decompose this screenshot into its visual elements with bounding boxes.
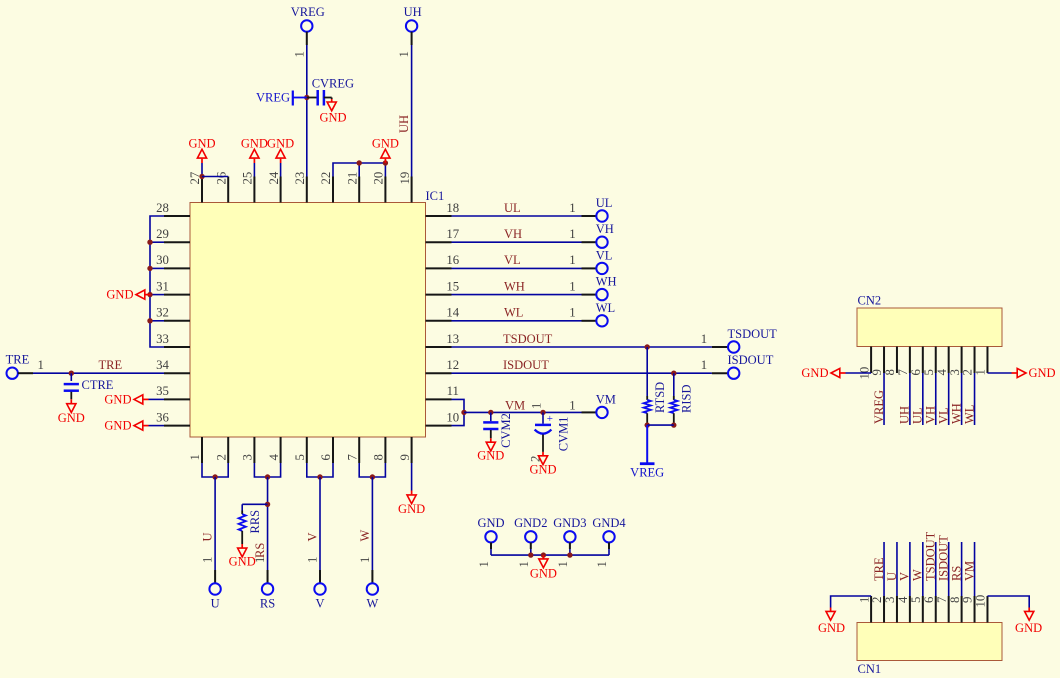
port GND3 <box>553 516 586 568</box>
ground pin 31 <box>106 288 150 302</box>
svg-text:GND: GND <box>229 554 256 568</box>
svg-text:3: 3 <box>883 597 897 603</box>
svg-text:TSDOUT: TSDOUT <box>924 531 938 581</box>
svg-text:VL: VL <box>504 253 521 267</box>
pin 1 label VH <box>569 227 575 241</box>
svg-text:CTRE: CTRE <box>82 378 114 392</box>
wire CN2 UL <box>922 373 924 425</box>
wire CN2 WH <box>961 373 963 425</box>
net label UL <box>504 201 521 215</box>
pin 34 <box>156 358 190 373</box>
port GND2 <box>514 516 547 568</box>
ground pin 20 <box>372 136 399 163</box>
refdes CN1 <box>858 662 882 676</box>
junction GND3 <box>567 552 572 557</box>
svg-text:WH: WH <box>949 403 963 424</box>
pin 7 <box>345 437 359 463</box>
svg-text:TSDOUT: TSDOUT <box>728 327 778 341</box>
svg-text:19: 19 <box>398 172 412 185</box>
wire GND4 <box>608 549 610 555</box>
svg-text:1: 1 <box>306 557 320 563</box>
svg-text:9: 9 <box>961 597 975 603</box>
pin 1 CN2 <box>974 347 988 376</box>
port TSDOUT <box>728 327 778 353</box>
svg-text:15: 15 <box>446 279 459 293</box>
svg-text:1: 1 <box>857 597 871 603</box>
svg-text:GND4: GND4 <box>592 516 626 530</box>
wire CN1 U <box>896 542 898 596</box>
resistor RRS <box>239 510 262 544</box>
pin 26 <box>214 171 228 202</box>
junction CVM1 <box>540 410 545 415</box>
wire bus pins 28-33 <box>150 216 164 347</box>
pin 15 <box>426 279 460 294</box>
refdes CN2 <box>858 294 882 308</box>
wire ISDOUT <box>452 372 728 374</box>
svg-text:35: 35 <box>156 384 169 398</box>
net label VREG CN2 <box>872 390 886 424</box>
wire CN1 TRE <box>883 542 885 596</box>
net label VL CN2 <box>936 407 950 424</box>
svg-text:VREG: VREG <box>872 390 886 424</box>
pin 25 <box>241 172 255 203</box>
wire CN1 ISDOUT <box>948 542 950 596</box>
net label W <box>358 530 372 542</box>
wire pins 11-10 bracket <box>452 399 465 425</box>
pin 1 label VM <box>569 399 575 413</box>
junction RS node <box>265 474 270 479</box>
svg-text:U: U <box>201 532 215 541</box>
pin 28 <box>156 201 190 216</box>
svg-text:10: 10 <box>974 595 988 608</box>
svg-text:GND: GND <box>477 516 504 530</box>
ground pin 25 <box>241 136 268 176</box>
net label VM <box>505 399 525 413</box>
pin 1 CN1 <box>857 596 871 623</box>
svg-text:CN1: CN1 <box>858 662 882 676</box>
svg-text:GND: GND <box>1015 621 1042 635</box>
svg-text:RS: RS <box>253 543 267 558</box>
svg-text:CN2: CN2 <box>858 294 882 308</box>
svg-text:1: 1 <box>358 557 372 563</box>
svg-text:WL: WL <box>962 405 976 424</box>
svg-text:GND: GND <box>372 136 399 150</box>
port WL <box>596 301 615 327</box>
svg-text:GND: GND <box>267 136 294 150</box>
svg-text:28: 28 <box>156 201 169 215</box>
svg-text:V: V <box>315 597 324 611</box>
net label RS <box>253 543 267 558</box>
svg-text:RTSD: RTSD <box>653 382 667 413</box>
wire TSDOUT <box>452 346 728 348</box>
wire VM <box>464 411 596 413</box>
svg-text:GND: GND <box>477 449 504 463</box>
port ISDOUT <box>728 353 774 379</box>
junction RTSD bottom <box>645 422 650 427</box>
svg-text:VH: VH <box>596 222 614 236</box>
svg-text:RISD: RISD <box>680 385 694 413</box>
capacitor CVM2 <box>483 412 513 448</box>
pin 30 <box>156 253 190 268</box>
pin 23 <box>293 172 307 203</box>
junction RS/RRS <box>265 502 270 507</box>
pin 16 <box>426 253 460 268</box>
pin 35 <box>156 384 190 399</box>
pin 18 <box>426 201 460 216</box>
net label WH <box>504 279 525 293</box>
port UL <box>596 196 613 222</box>
pin 6 CN1 <box>922 596 936 623</box>
svg-text:WL: WL <box>504 306 523 320</box>
svg-text:33: 33 <box>156 332 169 346</box>
svg-text:CVM2: CVM2 <box>499 413 513 448</box>
pin 27 <box>188 171 202 202</box>
svg-text:GND: GND <box>241 136 268 150</box>
pin 1 label UL <box>569 201 575 215</box>
pin 24 <box>267 171 281 202</box>
svg-text:1: 1 <box>397 51 411 57</box>
net label WL CN2 <box>962 405 976 424</box>
svg-text:21: 21 <box>345 172 359 185</box>
svg-text:34: 34 <box>156 358 169 372</box>
svg-text:CVM1: CVM1 <box>557 417 571 452</box>
svg-text:VH: VH <box>924 406 938 424</box>
wire UL <box>452 215 597 217</box>
wire CN2 WL <box>974 373 976 425</box>
wire VL <box>452 267 597 269</box>
svg-text:29: 29 <box>156 227 169 241</box>
wire UH to pin 19 <box>411 45 413 177</box>
svg-text:RS: RS <box>949 566 963 581</box>
ground GND bus <box>530 555 557 580</box>
pin 33 <box>156 332 190 347</box>
svg-text:TRE: TRE <box>6 353 30 367</box>
pin 31 <box>156 279 190 294</box>
junction GND2 <box>528 552 533 557</box>
ground pin 9 <box>398 463 425 516</box>
svg-text:5: 5 <box>922 369 936 375</box>
pin 3 CN1 <box>883 596 897 623</box>
net label TSDOUT <box>503 332 553 346</box>
svg-text:IC1: IC1 <box>426 189 445 203</box>
svg-text:WH: WH <box>504 279 525 293</box>
wire pins 27-26 <box>202 176 228 178</box>
svg-text:VL: VL <box>596 248 613 262</box>
svg-text:24: 24 <box>267 171 281 184</box>
svg-text:GND: GND <box>58 411 85 425</box>
junction U node <box>212 474 217 479</box>
svg-text:GND: GND <box>398 502 425 516</box>
svg-text:TSDOUT: TSDOUT <box>503 332 553 346</box>
pin 36 <box>156 410 190 425</box>
wire RTSD-RISD <box>647 424 674 426</box>
wire CN1 pin10 gnd <box>987 596 1042 635</box>
connector CN2 <box>857 308 1002 347</box>
svg-text:3: 3 <box>948 369 962 375</box>
wire RS to RRS <box>242 504 267 510</box>
net label UH <box>397 115 411 133</box>
junction VM node <box>461 410 466 415</box>
junction CVM2 <box>488 410 493 415</box>
svg-text:V: V <box>898 572 912 581</box>
pin 4 CN1 <box>896 596 910 623</box>
svg-text:1: 1 <box>569 201 575 215</box>
svg-text:1: 1 <box>569 306 575 320</box>
svg-text:30: 30 <box>156 253 169 267</box>
net label WH CN2 <box>949 403 963 424</box>
capacitor CVREG <box>307 77 354 106</box>
pin 8 CN2 <box>883 347 897 376</box>
junction TRE/CTRE <box>69 371 74 376</box>
junction pin 30 <box>147 266 152 271</box>
wire CN2 VH <box>935 373 937 425</box>
svg-text:W: W <box>366 597 378 611</box>
power VREG left <box>256 90 307 105</box>
svg-text:5: 5 <box>293 454 307 460</box>
pin 21 <box>345 172 359 203</box>
svg-text:GND: GND <box>106 288 133 302</box>
net label W CN1 <box>911 569 925 581</box>
svg-text:ISDOUT: ISDOUT <box>936 535 950 581</box>
svg-text:20: 20 <box>372 172 386 185</box>
pin 2 CN2 <box>961 347 975 376</box>
svg-text:10: 10 <box>446 410 459 424</box>
svg-text:31: 31 <box>156 279 169 293</box>
port GND <box>477 516 504 568</box>
svg-text:2: 2 <box>961 369 975 375</box>
svg-text:4: 4 <box>896 596 910 603</box>
port RS <box>260 583 275 610</box>
junction TSDOUT/RTSD <box>645 344 650 349</box>
ground below CVREG <box>319 98 346 125</box>
net label VL <box>504 253 521 267</box>
svg-text:5: 5 <box>909 597 923 603</box>
wire CN2 pin10 gnd <box>801 366 871 380</box>
pin 9 CN2 <box>870 347 884 376</box>
junction pin 27 <box>199 174 204 179</box>
wire V <box>319 477 321 583</box>
wire CN1 pin1 gnd <box>818 596 871 635</box>
svg-text:16: 16 <box>446 253 459 267</box>
svg-text:23: 23 <box>293 172 307 185</box>
pin 1 label V <box>306 557 320 563</box>
connector CN1 <box>857 623 1002 661</box>
pin 4 <box>267 437 281 463</box>
net label TRE <box>99 358 123 372</box>
svg-text:1: 1 <box>974 369 988 375</box>
svg-text:3: 3 <box>241 454 255 460</box>
svg-text:V: V <box>306 532 320 541</box>
ground pin 36 <box>104 419 164 433</box>
pin 13 <box>426 332 460 347</box>
port VM <box>596 392 616 418</box>
svg-text:VL: VL <box>936 407 950 424</box>
svg-text:8: 8 <box>948 597 962 603</box>
net label VH CN2 <box>924 406 938 424</box>
svg-text:4: 4 <box>267 454 281 461</box>
svg-text:VREG: VREG <box>630 465 664 479</box>
svg-text:UL: UL <box>596 196 613 210</box>
pin 1 label W <box>358 557 372 563</box>
pin 10 CN1 <box>974 595 988 623</box>
svg-text:36: 36 <box>156 410 169 424</box>
svg-text:1: 1 <box>569 399 575 413</box>
svg-text:17: 17 <box>446 227 459 241</box>
svg-text:ISDOUT: ISDOUT <box>503 358 549 372</box>
pin 2 <box>214 437 228 463</box>
wire CN1 V <box>909 542 911 596</box>
wire W <box>371 477 373 583</box>
ground below CTRE <box>58 392 85 425</box>
svg-text:2: 2 <box>870 597 884 603</box>
pin 2 label CVM1 <box>529 456 543 462</box>
pin 1 label CVM1 <box>530 403 544 409</box>
svg-text:W: W <box>911 569 925 581</box>
pin 22 <box>319 172 333 203</box>
svg-text:GND: GND <box>818 621 845 635</box>
svg-text:9: 9 <box>398 454 412 460</box>
pin 10 <box>426 410 460 425</box>
svg-text:18: 18 <box>446 201 459 215</box>
wire pins 22-20 <box>333 163 385 177</box>
svg-text:6: 6 <box>909 369 923 376</box>
net label UL CN2 <box>911 407 925 424</box>
wire CN1 TSDOUT <box>935 542 937 596</box>
wire pins 5-6 bracket <box>307 463 333 477</box>
svg-text:RRS: RRS <box>248 510 262 534</box>
port VL <box>596 248 613 274</box>
wire GND2 <box>530 549 532 555</box>
resistor RTSD <box>644 347 667 425</box>
junction pin 32 <box>147 318 152 323</box>
ground pin 35 <box>104 392 164 406</box>
ground pin 27 <box>188 136 215 176</box>
port VH <box>596 222 614 248</box>
junction pin 20 <box>383 160 388 165</box>
svg-text:1: 1 <box>477 561 491 567</box>
wire CN1 VM <box>974 542 976 596</box>
wire RS <box>267 477 269 583</box>
svg-text:1: 1 <box>253 557 267 563</box>
svg-text:1: 1 <box>37 358 43 372</box>
junction GND arrow <box>541 552 546 557</box>
wire CN2 pin1 gnd <box>987 366 1055 380</box>
wire pins 7-8 bracket <box>359 463 385 477</box>
wire CN1 W <box>922 542 924 596</box>
junction VREG/CVREG <box>304 95 309 100</box>
wire CN2 VL <box>948 373 950 425</box>
svg-text:22: 22 <box>319 172 333 185</box>
pin 9 <box>398 437 412 463</box>
svg-text:13: 13 <box>446 332 459 346</box>
svg-text:UH: UH <box>898 406 912 424</box>
net label U CN1 <box>885 572 899 581</box>
svg-text:1: 1 <box>595 561 609 567</box>
svg-text:26: 26 <box>214 171 228 184</box>
pin 8 CN1 <box>948 596 962 623</box>
svg-text:11: 11 <box>447 384 459 398</box>
svg-text:GND: GND <box>1029 366 1056 380</box>
svg-text:U: U <box>211 597 220 611</box>
svg-text:1: 1 <box>188 454 202 460</box>
pin 20 <box>372 172 386 203</box>
wire pins 1-2 bracket <box>202 463 228 477</box>
svg-text:GND: GND <box>188 136 215 150</box>
svg-text:1: 1 <box>292 51 306 57</box>
pin 7 CN1 <box>935 596 949 623</box>
svg-text:VM: VM <box>962 561 976 581</box>
svg-text:1: 1 <box>530 403 544 409</box>
svg-text:1: 1 <box>569 227 575 241</box>
wire WL <box>452 320 597 322</box>
pin 32 <box>156 306 190 321</box>
capacitor CVM1 <box>535 412 571 451</box>
wire GND3 <box>569 549 571 555</box>
svg-text:12: 12 <box>446 358 459 372</box>
pin 5 CN2 <box>922 347 936 376</box>
svg-text:GND3: GND3 <box>553 516 586 530</box>
svg-text:32: 32 <box>156 306 169 320</box>
port VREG <box>291 5 325 58</box>
svg-text:6: 6 <box>319 454 333 461</box>
wire GND bus <box>491 554 609 556</box>
svg-text:UL: UL <box>911 407 925 424</box>
wire VH <box>452 241 597 243</box>
pin 1 label U <box>201 557 215 563</box>
svg-text:UH: UH <box>404 5 422 19</box>
svg-text:1: 1 <box>556 561 570 567</box>
refdes IC1 <box>426 189 445 203</box>
net label TRE CN1 <box>872 557 886 581</box>
svg-text:GND2: GND2 <box>514 516 547 530</box>
pin 1 <box>188 437 202 463</box>
svg-text:RS: RS <box>260 597 275 611</box>
power VREG bottom <box>630 425 664 479</box>
pin 19 <box>398 172 412 203</box>
IC IC1 <box>190 203 426 438</box>
svg-text:25: 25 <box>241 172 255 185</box>
wire U <box>214 477 216 583</box>
svg-text:CVREG: CVREG <box>312 77 354 91</box>
pin 1 label WL <box>569 306 575 320</box>
port V <box>314 583 325 610</box>
svg-text:VREG: VREG <box>291 5 325 19</box>
resistor RISD <box>670 373 693 425</box>
wire CN2 UH <box>909 373 911 425</box>
pin 17 <box>426 227 460 242</box>
wire WH <box>452 294 597 296</box>
wire GND <box>490 549 492 555</box>
pin 1 label RS <box>253 557 267 563</box>
svg-text:1: 1 <box>701 332 707 346</box>
svg-text:GND: GND <box>801 366 828 380</box>
svg-text:VM: VM <box>596 392 616 406</box>
pin 3 CN2 <box>948 347 962 376</box>
svg-text:GND: GND <box>530 567 557 581</box>
ground pin 24 <box>267 136 294 176</box>
pin 3 <box>241 437 255 463</box>
ground below CVM1 <box>529 435 556 477</box>
svg-text:1: 1 <box>701 358 707 372</box>
junction pin 31 <box>147 292 152 297</box>
junction W node <box>370 474 375 479</box>
svg-text:ISDOUT: ISDOUT <box>728 353 774 367</box>
net label VM CN1 <box>962 561 976 581</box>
net label U <box>201 532 215 541</box>
pin 1 label ISDOUT <box>701 358 707 372</box>
svg-text:TRE: TRE <box>99 358 123 372</box>
pin 1 label WH <box>569 279 575 293</box>
